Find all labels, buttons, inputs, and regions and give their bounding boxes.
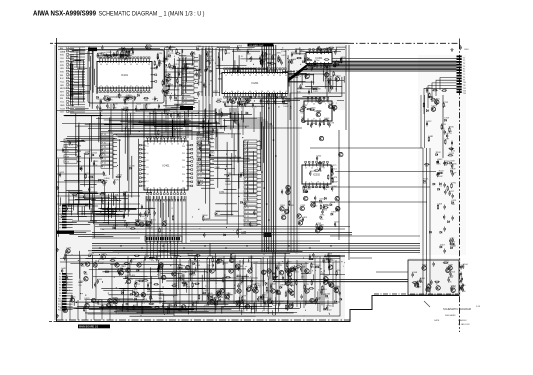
svg-text:Q721: Q721 [169,53,175,55]
svg-text:D931: D931 [297,264,303,266]
svg-text:C104: C104 [463,264,469,266]
svg-text:39: 39 [285,75,287,77]
capacitor rows above IC201 [240,49,287,67]
svg-text:C262: C262 [329,260,335,262]
svg-text:1000P: 1000P [196,76,202,78]
svg-text:R778: R778 [188,254,194,256]
component cluster top-right (regulator) [423,88,449,112]
horizontal wire bus (middle lower) [92,244,420,253]
svg-text:D676: D676 [332,177,338,179]
svg-text:C659: C659 [450,160,456,162]
svg-text:R185: R185 [452,164,458,166]
svg-text:P7: P7 [59,290,61,292]
svg-text:C900: C900 [311,123,317,125]
svg-text:D481: D481 [428,136,434,138]
svg-text:T2: T2 [463,60,465,62]
svg-text:T12: T12 [463,88,466,90]
capacitor row above IC101 [97,50,134,61]
svg-text:T6: T6 [463,71,465,73]
component cluster left-center [81,152,119,206]
svg-text:P9: P9 [59,296,61,298]
IC IC501 group (mid-right upper) [299,97,337,128]
transistor row Q707-Q712 (amp) [220,289,309,293]
wire mesh bottom-left [65,251,329,314]
wire bus to CN601 [268,62,457,89]
svg-text:D164: D164 [450,272,456,274]
svg-text:D762: D762 [426,88,432,90]
svg-text:Q648: Q648 [313,87,319,89]
svg-text:1000P: 1000P [437,176,443,178]
section enclosure (tuner control) [88,50,164,103]
svg-text:54: 54 [106,86,108,88]
svg-text:1000P: 1000P [283,106,289,108]
board outline [55,43,460,332]
svg-text:C873: C873 [158,258,164,260]
svg-text:D576: D576 [114,180,120,182]
svg-text:26: 26 [311,168,313,170]
resistor array RA201 boxed column [182,56,198,94]
svg-text:C888: C888 [66,206,72,208]
bottom band tile 1 [78,263,133,303]
svg-text:D974: D974 [97,54,103,56]
svg-text:R597: R597 [316,111,322,113]
svg-text:P57: P57 [146,181,149,183]
svg-text:D290: D290 [247,286,253,288]
svg-text:D901: D901 [217,99,223,101]
wire to power box [376,271,408,273]
wire mesh right of IC401 [198,108,263,224]
ground symbol (left 2) [56,248,59,251]
svg-text:5: 5 [311,182,312,184]
svg-text:P5: P5 [59,217,61,219]
svg-text:P24: P24 [182,188,185,190]
wire mesh left of center 2 [59,191,112,231]
svg-text:0.022: 0.022 [215,215,221,217]
svg-text:D982: D982 [248,257,254,259]
svg-text:41: 41 [130,86,132,88]
connector CN403 (left edge) [58,273,73,311]
svg-text:P1: P1 [59,206,61,208]
svg-text:1000P: 1000P [237,104,243,106]
component cluster right column 2 [423,110,457,249]
svg-text:KEY: KEY [60,61,65,63]
svg-text:D132: D132 [335,222,341,224]
svg-text:31: 31 [305,182,307,184]
svg-text:LED: LED [60,68,64,70]
svg-text:28: 28 [249,75,251,77]
IC IC301 group [281,47,341,70]
svg-text:P8: P8 [59,225,61,227]
svg-text:IC101: IC101 [121,73,128,77]
svg-text:0.022: 0.022 [113,302,119,304]
svg-text:P12: P12 [182,167,185,169]
svg-text:4.7K: 4.7K [136,111,141,113]
svg-text:D647: D647 [112,297,118,299]
svg-text:D334: D334 [279,301,285,303]
svg-text:60: 60 [106,64,108,66]
svg-text:50: 50 [267,91,269,93]
svg-text:R554: R554 [238,100,244,102]
component cluster right column (caps) [437,159,458,248]
svg-text:0.022: 0.022 [215,124,221,126]
svg-text:R167: R167 [212,257,218,259]
svg-text:B.U: B.U [60,78,64,80]
component cluster top band D [294,71,344,103]
wire (long v3) [442,95,444,158]
vertical wires x200-212 [203,46,212,140]
svg-text:C134: C134 [148,208,154,210]
svg-text:P10: P10 [146,153,149,155]
svg-text:2.2K: 2.2K [437,164,442,166]
wire (long h4) [310,201,427,203]
svg-text:2: 2 [317,168,318,170]
component cluster bottom band B [159,254,248,315]
ground symbol (left 3) [56,314,59,317]
label box (black) near IC101 [88,48,97,52]
svg-text:C180: C180 [130,166,136,168]
svg-text:DATA: DATA [60,50,66,53]
svg-text:T9: T9 [463,80,465,82]
svg-text:30: 30 [159,188,161,190]
svg-text:D101: D101 [310,171,316,173]
vertical wire bus (center) [262,45,276,252]
svg-text:D954: D954 [237,46,243,48]
svg-text:Q524: Q524 [131,258,137,260]
svg-text:R912: R912 [448,277,454,279]
svg-text:R694: R694 [285,99,291,101]
svg-text:C448: C448 [78,281,84,283]
svg-text:38: 38 [159,144,161,146]
svg-text:Q256: Q256 [142,299,148,301]
component cluster left of amplifier [63,247,167,314]
component cluster amp right extra [256,258,336,308]
svg-text:1000P: 1000P [332,181,338,183]
svg-text:2.2K: 2.2K [252,107,257,109]
svg-text:D115: D115 [307,302,313,304]
svg-text:46: 46 [313,104,315,106]
vertical ticks bottom band [80,256,336,312]
svg-text:47u: 47u [324,189,327,191]
svg-text:47u: 47u [204,294,207,296]
svg-text:D433: D433 [166,84,172,86]
svg-text:0.022: 0.022 [327,310,333,312]
svg-text:Q402: Q402 [270,284,276,286]
transistor cluster (amp) B [260,260,335,311]
svg-text:P11: P11 [58,301,61,303]
svg-text:D407: D407 [440,244,446,246]
svg-text:P59: P59 [182,153,185,155]
power supply section box [408,260,459,295]
transistor row Q701-Q706 (amp) [210,269,309,273]
transistor cluster right of IC401 [280,185,309,222]
svg-text:0.022: 0.022 [261,64,267,66]
svg-text:S-A999U: S-A999U [458,319,467,322]
svg-text:1000P: 1000P [177,131,183,133]
svg-text:C914: C914 [204,290,210,292]
svg-text:R125: R125 [423,179,429,181]
scan tone wash [57,44,466,322]
svg-text:R502: R502 [329,103,335,105]
capacitor column x460 [461,265,462,291]
svg-text:6: 6 [243,91,244,93]
transistor cluster below-left of IC401 [126,204,168,228]
svg-text:R654: R654 [415,281,421,283]
svg-text:D631: D631 [303,185,309,187]
svg-text:R939: R939 [268,99,274,101]
svg-text:P7: P7 [59,222,61,224]
pin row below IC401 [146,196,185,201]
svg-text:29: 29 [273,91,275,93]
svg-text:P41: P41 [146,167,149,169]
svg-text:T14: T14 [463,93,466,95]
label (black) below CN402 [57,231,74,234]
svg-text:R225: R225 [136,104,142,106]
svg-text:Q182: Q182 [63,283,69,285]
IC IC201 [222,68,288,98]
svg-text:39: 39 [255,75,257,77]
svg-text:C229: C229 [66,247,72,249]
component cluster top of bus bend [319,46,347,72]
IC IC401 (main microcontroller) [139,136,193,194]
svg-text:4.7K: 4.7K [325,80,330,82]
svg-text:17: 17 [165,188,167,190]
scan grain top band [92,46,337,108]
boxed labels (left, mid) [64,139,81,164]
component cluster mid-left [125,211,174,233]
pin strip right of IC401 [197,133,214,186]
component cluster above IC401 [158,112,231,139]
svg-text:53: 53 [148,64,150,66]
svg-text:T4: T4 [463,66,465,68]
svg-text:C308: C308 [215,167,221,169]
component cluster bottom band C [245,258,345,315]
svg-text:Q662: Q662 [117,175,123,177]
svg-text:P18: P18 [146,174,149,176]
svg-text:0.022: 0.022 [185,124,191,126]
svg-text:2.2K: 2.2K [303,190,308,192]
svg-text:0.022: 0.022 [281,55,287,57]
component column between sections [164,53,180,102]
svg-text:37: 37 [255,91,257,93]
svg-text:STD: STD [60,65,65,67]
title text [33,11,205,18]
svg-text:1000P: 1000P [100,103,106,105]
svg-text:P4: P4 [59,214,61,216]
svg-text:SCHEMATIC DIAGRAM: SCHEMATIC DIAGRAM [443,307,471,311]
svg-text:Q764: Q764 [314,60,320,62]
wire bottom connect [209,243,211,256]
svg-text:Q629: Q629 [247,98,253,100]
wire (long h3) [302,186,430,188]
bottom band tile 5 [307,263,342,311]
svg-text:P3: P3 [59,211,61,213]
svg-text:T5: T5 [463,69,465,71]
svg-text:C129: C129 [333,63,339,65]
svg-text:C443: C443 [225,49,231,51]
svg-text:P1: P1 [59,274,61,276]
svg-text:4.7K: 4.7K [90,179,95,181]
svg-text:16: 16 [279,91,281,93]
svg-text:P31: P31 [146,146,149,148]
svg-text:R361: R361 [215,211,221,213]
svg-text:D343: D343 [324,118,330,120]
svg-text:48: 48 [243,75,245,77]
svg-text:47u: 47u [126,100,129,102]
svg-text:MAIN BOARD 1/3: MAIN BOARD 1/3 [79,325,99,328]
svg-text:Q196: Q196 [85,152,91,154]
wire mesh left-center [57,112,139,238]
svg-text:4: 4 [112,86,113,88]
svg-text:Q130: Q130 [157,53,163,55]
svg-text:R371: R371 [151,219,157,221]
svg-text:30: 30 [136,64,138,66]
svg-text:47u: 47u [159,63,162,65]
svg-text:C143: C143 [318,290,324,292]
label (black) bottom-left [78,325,110,329]
svg-text:AM: AM [60,47,63,50]
stray mark (slash) [424,301,430,307]
crystal X101 group [154,53,164,69]
component cluster center channel [197,112,264,238]
resistor network RN401 [145,236,182,258]
svg-text:GND: GND [60,105,65,107]
svg-text:R417: R417 [449,191,455,193]
svg-text:2.2K: 2.2K [69,144,74,146]
svg-text:P8: P8 [59,293,61,295]
svg-text:47u: 47u [267,302,270,304]
svg-text:59: 59 [237,91,239,93]
svg-text:8: 8 [148,86,149,88]
svg-text:FM: FM [60,75,63,77]
component cluster top band C [289,46,340,69]
svg-text:Q795: Q795 [316,223,322,225]
svg-text:KEY: KEY [60,92,65,94]
svg-text:MUTE: MUTE [60,88,66,90]
left column tick strip (top) [70,47,85,112]
vertical wires amp section [180,258,333,310]
svg-text:D178: D178 [329,122,335,124]
svg-text:IC502: IC502 [313,173,320,177]
svg-text:C209: C209 [282,214,288,216]
svg-text:C944: C944 [92,152,98,154]
svg-text:D509: D509 [451,169,457,171]
svg-text:R456: R456 [322,209,328,211]
svg-text:47: 47 [313,119,315,121]
label bar (black, top) [248,44,274,48]
svg-text:D856: D856 [126,96,132,98]
pin strip CN401 (far right of IC401) [244,140,261,226]
svg-text:R785: R785 [219,258,225,260]
label box (black) below RA201 [180,106,193,110]
connector CN101 labels (left edge top) [60,47,74,114]
svg-text:42: 42 [273,75,275,77]
svg-text:2.2K: 2.2K [327,69,332,71]
svg-text:47u: 47u [333,75,336,77]
component cluster below IC201 [220,96,290,108]
svg-text:R785: R785 [209,295,215,297]
svg-text:R699: R699 [238,302,244,304]
vertical drops from top section [100,100,254,138]
svg-text:3: 3 [225,91,226,93]
svg-text:60: 60 [231,91,233,93]
bottom band tile 2 [134,265,182,314]
svg-text:Q598: Q598 [330,202,336,204]
svg-text:Q659: Q659 [106,98,112,100]
svg-text:12: 12 [225,75,227,77]
svg-text:Q781: Q781 [451,183,457,185]
svg-text:R284: R284 [207,52,213,54]
connector CN402 (left edge) [59,205,73,229]
svg-text:2.2K: 2.2K [180,280,185,282]
svg-text:1000P: 1000P [225,184,231,186]
svg-text:Q800: Q800 [212,128,218,130]
svg-text:4.7K: 4.7K [147,294,152,296]
svg-text:R185: R185 [449,127,455,129]
scan grain center [100,112,260,233]
svg-text:13: 13 [237,75,239,77]
svg-text:27: 27 [118,64,120,66]
svg-text:0.022: 0.022 [294,271,300,273]
svg-text:P26: P26 [182,174,185,176]
svg-text:Q683: Q683 [118,269,124,271]
svg-text:T3: T3 [463,63,465,65]
component cluster below IC201 extra [216,93,290,109]
svg-text:D631: D631 [182,272,188,274]
svg-text:47u: 47u [423,183,426,185]
dark clump on bus [264,233,272,238]
svg-text:1000P: 1000P [147,227,153,229]
svg-text:T7: T7 [463,74,465,76]
wire (long h5) [196,127,302,129]
svg-text:P5: P5 [59,285,61,287]
svg-text:7: 7 [112,64,113,66]
svg-text:47u: 47u [151,260,154,262]
svg-text:T13: T13 [463,91,466,93]
svg-text:26: 26 [171,188,173,190]
svg-text:R670: R670 [441,124,447,126]
wire mesh around IC201 [216,48,289,107]
horizontal wiring channel below top section [57,111,257,137]
svg-text:23: 23 [171,144,173,146]
svg-text:C805: C805 [280,205,286,207]
bottom band tile 3 [192,265,249,308]
svg-text:T8: T8 [463,77,465,79]
svg-text:37: 37 [153,188,155,190]
svg-text:Q732: Q732 [443,102,449,104]
svg-text:C987: C987 [443,88,449,90]
wire (long v2) [338,130,340,240]
svg-text:P10: P10 [58,298,61,300]
svg-text:DATE: DATE [434,319,440,322]
svg-text:C834: C834 [286,262,292,264]
svg-text:D175: D175 [431,106,437,108]
svg-text:C948: C948 [185,119,191,121]
svg-text:P14: P14 [58,309,61,311]
svg-text:P2: P2 [59,208,61,210]
svg-text:C601: C601 [464,49,469,51]
svg-text:VDD: VDD [60,95,65,97]
svg-text:R295: R295 [225,180,231,182]
svg-text:C178: C178 [135,296,141,298]
svg-text:C402: C402 [437,159,443,161]
svg-text:R477: R477 [225,126,231,128]
svg-text:Q275: Q275 [331,165,337,167]
svg-text:P3: P3 [59,279,61,281]
svg-text:47u: 47u [326,298,329,300]
svg-text:7: 7 [323,182,324,184]
svg-text:C211: C211 [304,284,310,286]
svg-text:FM: FM [60,98,63,100]
